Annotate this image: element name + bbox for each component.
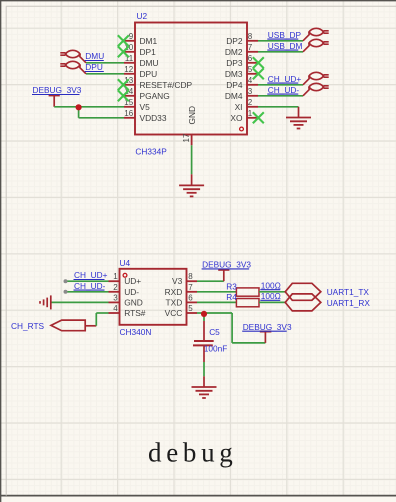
svg-text:1: 1 — [113, 272, 118, 281]
svg-text:3: 3 — [248, 87, 253, 96]
svg-text:TXD: TXD — [166, 297, 183, 307]
svg-text:DEBUG_3V3: DEBUG_3V3 — [243, 322, 292, 332]
svg-text:5: 5 — [188, 304, 193, 313]
svg-text:DP1: DP1 — [140, 47, 157, 57]
svg-text:V3: V3 — [172, 276, 183, 286]
svg-text:3: 3 — [113, 293, 118, 302]
svg-text:8: 8 — [188, 272, 193, 281]
svg-text:UART1_RX: UART1_RX — [327, 298, 371, 308]
svg-text:DPU: DPU — [140, 69, 158, 79]
svg-text:DM3: DM3 — [225, 69, 243, 79]
svg-text:DM1: DM1 — [140, 36, 158, 46]
svg-text:PGANG: PGANG — [140, 91, 170, 101]
svg-text:8: 8 — [248, 32, 253, 41]
svg-text:DP2: DP2 — [226, 36, 243, 46]
svg-text:GND: GND — [187, 106, 197, 125]
svg-text:6: 6 — [188, 293, 193, 302]
svg-text:DP4: DP4 — [226, 80, 243, 90]
svg-text:DEBUG_3V3: DEBUG_3V3 — [33, 85, 82, 95]
svg-text:UART1_TX: UART1_TX — [327, 287, 370, 297]
svg-text:2: 2 — [248, 98, 253, 107]
svg-text:100nF: 100nF — [204, 343, 228, 353]
svg-text:DP3: DP3 — [226, 58, 243, 68]
svg-text:R3: R3 — [226, 281, 237, 291]
svg-text:UD+: UD+ — [124, 276, 141, 286]
svg-text:RTS#: RTS# — [124, 308, 146, 318]
svg-text:2: 2 — [113, 283, 118, 292]
svg-text:VDD33: VDD33 — [140, 113, 167, 123]
svg-text:12: 12 — [124, 65, 133, 74]
svg-text:RXD: RXD — [165, 287, 183, 297]
svg-text:debug: debug — [148, 438, 237, 468]
svg-text:USB_DM: USB_DM — [268, 41, 303, 51]
svg-text:DPU: DPU — [85, 62, 103, 72]
svg-text:1: 1 — [248, 109, 253, 118]
svg-text:4: 4 — [248, 76, 253, 85]
svg-text:C5: C5 — [209, 327, 220, 337]
svg-text:7: 7 — [188, 283, 193, 292]
svg-text:5: 5 — [248, 65, 253, 74]
svg-text:R4: R4 — [226, 292, 237, 302]
svg-text:17: 17 — [182, 133, 191, 142]
svg-text:UD-: UD- — [124, 287, 139, 297]
svg-text:DM2: DM2 — [225, 47, 243, 57]
svg-text:9: 9 — [129, 32, 134, 41]
svg-text:V5: V5 — [140, 102, 151, 112]
svg-text:CH_UD+: CH_UD+ — [74, 270, 108, 280]
svg-text:CH_RTS: CH_RTS — [11, 321, 45, 331]
svg-text:DM4: DM4 — [225, 91, 243, 101]
svg-text:CH_UD-: CH_UD- — [74, 281, 106, 291]
svg-text:USB_DP: USB_DP — [268, 30, 302, 40]
svg-text:XI: XI — [235, 102, 243, 112]
svg-text:7: 7 — [248, 43, 253, 52]
svg-text:CH340N: CH340N — [120, 327, 152, 337]
svg-text:CH_UD+: CH_UD+ — [268, 74, 302, 84]
svg-text:6: 6 — [248, 54, 253, 63]
svg-text:U2: U2 — [137, 11, 148, 21]
svg-text:4: 4 — [113, 304, 118, 313]
svg-text:CH_UD-: CH_UD- — [268, 85, 300, 95]
svg-text:DEBUG_3V3: DEBUG_3V3 — [202, 260, 251, 270]
svg-text:DMU: DMU — [85, 51, 104, 61]
svg-text:U4: U4 — [120, 258, 131, 268]
svg-text:CH334P: CH334P — [135, 146, 167, 156]
svg-text:RESET#/CDP: RESET#/CDP — [140, 80, 193, 90]
svg-text:GND: GND — [124, 297, 143, 307]
svg-text:VCC: VCC — [165, 308, 183, 318]
svg-text:16: 16 — [124, 109, 133, 118]
svg-text:100Ω: 100Ω — [261, 280, 281, 290]
svg-text:XO: XO — [230, 113, 243, 123]
svg-text:DMU: DMU — [140, 58, 159, 68]
